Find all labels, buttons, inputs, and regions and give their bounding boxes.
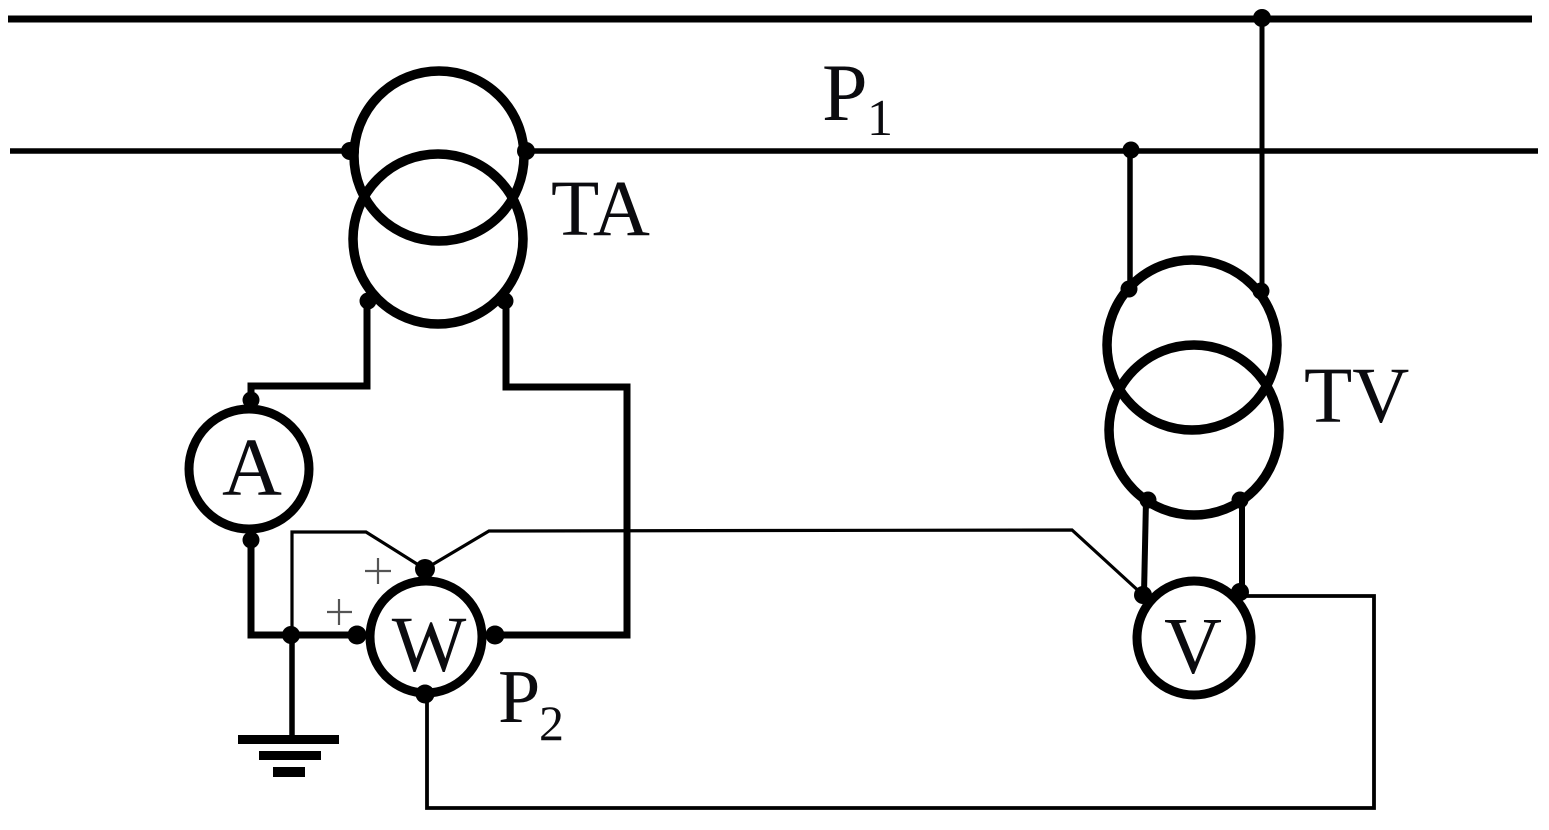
wire TA secondary left to ammeter top — [251, 299, 367, 402]
node TV secondary left — [1140, 492, 1157, 509]
wire TV secondary left to voltmeter — [1144, 500, 1146, 594]
ground — [238, 740, 339, 773]
wire bus line 1 (top) — [8, 16, 1532, 23]
wire ground lead — [289, 635, 295, 739]
node TV secondary right — [1232, 492, 1249, 509]
node TA secondary right — [497, 293, 514, 310]
ammeter A — [189, 409, 309, 529]
wire voltmeter loop to wattmeter bottom — [427, 596, 1374, 808]
node voltmeter top-right — [1231, 583, 1249, 601]
wire bus line 2 — [10, 148, 1538, 154]
node ammeter top — [243, 392, 260, 409]
node TA primary left — [341, 142, 359, 160]
node ammeter bottom — [243, 532, 260, 549]
svg-text:A: A — [222, 421, 282, 513]
wattmeter W — [370, 581, 482, 693]
polarity mark + (lower) — [327, 599, 352, 625]
svg-text:TV: TV — [1304, 353, 1409, 440]
node TA secondary left — [360, 293, 377, 310]
node junction ground — [282, 626, 300, 644]
polarity mark + (upper) — [365, 558, 391, 584]
wire potential lead left (junction to wattmeter + terminal) — [292, 532, 425, 635]
wire TV secondary right to voltmeter — [1239, 499, 1245, 593]
node wattmeter top — [415, 559, 435, 579]
transformer TA (current transformer) — [349, 67, 528, 328]
wire TV primary left lead — [1127, 148, 1133, 291]
wire ammeter bottom to wattmeter left — [251, 538, 359, 635]
svg-text:TA: TA — [551, 166, 650, 253]
svg-text:P: P — [822, 47, 868, 138]
wire TV primary right lead — [1260, 16, 1265, 293]
svg-text:1: 1 — [867, 90, 893, 147]
node wattmeter left — [348, 626, 367, 645]
transformer TV (voltage transformer) — [1107, 260, 1279, 515]
svg-text:2: 2 — [539, 695, 564, 751]
node TV primary right — [1253, 283, 1270, 300]
svg-text:W: W — [392, 602, 467, 689]
wire TA secondary right to wattmeter right — [493, 299, 627, 635]
node TV primary left — [1121, 281, 1138, 298]
voltmeter V — [1137, 581, 1251, 695]
wire potential lead right (wattmeter + to voltmeter left) — [425, 530, 1143, 595]
node bus2-TV left lead — [1123, 142, 1140, 159]
svg-text:V: V — [1164, 603, 1222, 691]
node wattmeter right — [486, 626, 505, 645]
svg-text:P: P — [498, 655, 540, 739]
node wattmeter bottom — [416, 685, 435, 704]
node bus1-TV right lead — [1253, 9, 1271, 27]
node voltmeter top-left — [1134, 586, 1152, 604]
node TA primary right — [517, 142, 535, 160]
